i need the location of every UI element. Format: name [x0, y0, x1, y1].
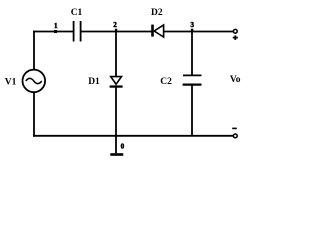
svg-text:C2: C2 — [160, 77, 172, 87]
svg-text:0: 0 — [121, 142, 125, 150]
node 3 — [191, 29, 193, 32]
svg-text:1: 1 — [54, 22, 58, 30]
wire node2 down to D1 — [115, 32, 117, 77]
wire V1 bottom to bottom-left corner — [33, 92, 35, 137]
bottom wire — [33, 135, 233, 137]
wire C1 to D2 — [81, 31, 152, 33]
ground — [110, 136, 124, 156]
source V1 — [5, 70, 45, 93]
node 2 — [115, 29, 117, 32]
diode D1 — [88, 77, 122, 88]
svg-text:Vo: Vo — [230, 75, 241, 85]
node 1 — [54, 30, 57, 33]
svg-text:D2: D2 — [151, 8, 163, 18]
svg-text:3: 3 — [190, 21, 194, 29]
svg-text:V1: V1 — [5, 78, 17, 88]
wire node3 down to C2 — [191, 32, 193, 76]
wire C2 to bottom — [191, 86, 193, 137]
svg-text:2: 2 — [113, 21, 117, 29]
wire D2 to + terminal — [164, 31, 233, 33]
svg-text:D1: D1 — [88, 77, 100, 87]
terminal + (top right) — [233, 29, 237, 33]
wire D1 to bottom — [115, 88, 117, 138]
capacitor C2 — [160, 75, 201, 86]
terminal - (bottom right) — [233, 134, 237, 138]
svg-text:C1: C1 — [71, 8, 83, 18]
capacitor C1 — [73, 21, 75, 42]
wire top-left horizontal (corner to C1) — [33, 31, 73, 33]
diode D2 — [151, 8, 164, 37]
wire left vertical (corner to V1 top) — [33, 31, 35, 70]
